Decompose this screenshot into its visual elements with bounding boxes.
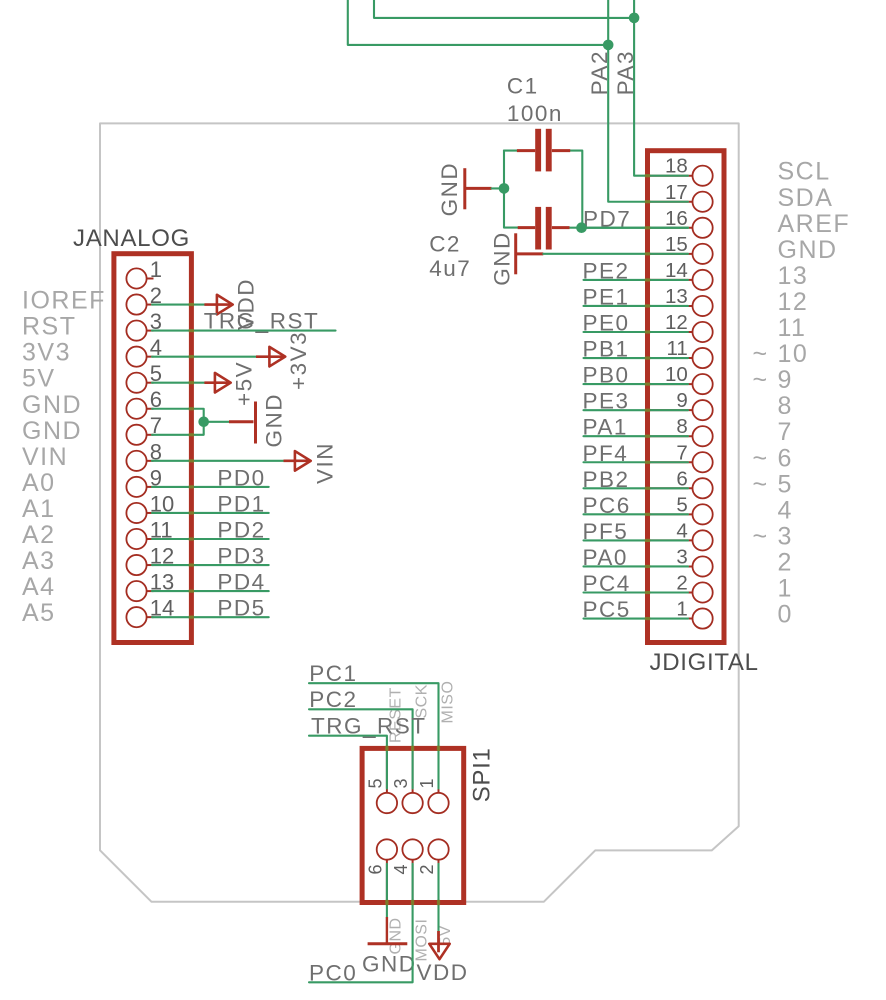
- JDIGITAL wire crossing tick pin 5: [645, 513, 650, 516]
- svg-text:6: 6: [676, 467, 687, 490]
- tick PD1 wire: [189, 511, 194, 514]
- wire GND to pin 15: [543, 253, 688, 255]
- tick PD5 wire: [189, 616, 194, 619]
- svg-text:A4: A4: [22, 573, 56, 601]
- svg-text:6: 6: [778, 444, 793, 472]
- svg-text:GND: GND: [778, 236, 838, 264]
- svg-text:SDA: SDA: [778, 184, 834, 212]
- wire GND stub to ground: [204, 421, 229, 423]
- tick PD2 wire: [189, 537, 194, 540]
- svg-text:PC2: PC2: [309, 687, 357, 712]
- wire net PE1: [584, 305, 689, 307]
- ground symbol GND (SPI1): [368, 917, 408, 944]
- tick +3V3 wire: [189, 355, 194, 358]
- JDIGITAL wire crossing tick pin 8: [645, 435, 650, 438]
- wire net PA2: [348, 0, 608, 45]
- JDIGITAL wire crossing tick pin 16: [645, 226, 650, 229]
- svg-text:17: 17: [665, 181, 688, 204]
- svg-text:2: 2: [417, 864, 437, 874]
- svg-text:JANALOG: JANALOG: [73, 225, 190, 252]
- SPI1 pin 5: [377, 751, 397, 813]
- junction GND at C1: [499, 183, 510, 194]
- SPI1 pin 6: [377, 839, 397, 900]
- wire net PB2: [584, 487, 689, 489]
- wire net PE3: [584, 409, 689, 411]
- JANALOG pin 9: [126, 477, 153, 497]
- svg-text:PA3: PA3: [613, 50, 638, 95]
- svg-text:5: 5: [778, 470, 793, 498]
- tick TRG_RST wire: [189, 329, 194, 332]
- svg-text:7: 7: [778, 418, 793, 446]
- svg-text:3: 3: [676, 545, 687, 568]
- svg-text:PD0: PD0: [217, 465, 265, 490]
- connector JDIGITAL box: [648, 151, 725, 643]
- JANALOG pin 1: [126, 268, 153, 288]
- board outline: [100, 123, 739, 901]
- svg-text:VDD: VDD: [417, 960, 469, 985]
- JDIGITAL pin 13: [650, 296, 713, 316]
- capacitor C1: [517, 129, 570, 172]
- wire GND tap to junction: [492, 187, 505, 189]
- wire net VDD (pin 2): [152, 303, 204, 305]
- tick GND wires: [189, 407, 194, 410]
- SPI1 pin 3: [402, 751, 422, 813]
- svg-text:1: 1: [676, 598, 687, 621]
- wire net +5V (pin 5): [152, 382, 204, 384]
- wire net PD5 (pin 14): [152, 616, 269, 618]
- svg-text:GND: GND: [22, 391, 82, 419]
- JANALOG pin 3: [126, 321, 153, 341]
- JDIGITAL wire crossing tick pin 2: [645, 591, 650, 594]
- svg-text:~: ~: [753, 340, 768, 368]
- svg-text:PA2: PA2: [587, 50, 612, 95]
- svg-text:PC0: PC0: [309, 960, 357, 985]
- JANALOG pin 6: [126, 399, 153, 419]
- JANALOG pin 12: [126, 555, 153, 575]
- wire net GND (left of capacitors): [504, 150, 517, 152]
- svg-text:13: 13: [778, 262, 809, 290]
- wire net PD2 (pin 11): [152, 538, 269, 540]
- JANALOG pin 5: [126, 373, 153, 393]
- svg-text:GND: GND: [262, 393, 287, 448]
- supply symbol +5V: [204, 373, 230, 393]
- wire net PD1 (pin 10): [152, 512, 269, 514]
- JDIGITAL wire crossing tick pin 17: [645, 200, 650, 203]
- JANALOG pin 2: [126, 294, 153, 314]
- svg-text:VIN: VIN: [22, 443, 68, 471]
- JDIGITAL wire crossing tick pin 6: [645, 487, 650, 490]
- svg-text:A0: A0: [22, 469, 56, 497]
- wire net PA0: [584, 565, 689, 567]
- svg-text:TRG_RST: TRG_RST: [311, 714, 427, 739]
- svg-text:SPI1: SPI1: [469, 747, 496, 802]
- svg-text:A1: A1: [22, 495, 56, 523]
- svg-text:6: 6: [366, 864, 386, 874]
- svg-text:TRG_RST: TRG_RST: [204, 309, 320, 334]
- svg-text:1: 1: [150, 257, 162, 282]
- svg-text:~: ~: [753, 444, 768, 472]
- junction net PA3: [629, 13, 640, 24]
- svg-text:15: 15: [665, 233, 688, 256]
- supply symbol VIN: [284, 451, 311, 471]
- svg-text:16: 16: [665, 207, 688, 230]
- capacitor C2: [518, 207, 570, 250]
- wire net PF4: [584, 461, 689, 463]
- SPI1 pin 2: [428, 839, 448, 900]
- svg-text:3: 3: [391, 778, 411, 788]
- wire net PF5: [584, 539, 689, 541]
- JDIGITAL pin 17: [650, 192, 713, 212]
- svg-text:5V: 5V: [22, 365, 56, 393]
- JANALOG pin 7: [126, 425, 153, 445]
- JDIGITAL wire crossing tick pin 14: [645, 278, 650, 281]
- JDIGITAL wire crossing tick pin 13: [645, 304, 650, 307]
- supply symbol +3V3: [256, 347, 285, 367]
- JDIGITAL pin 10: [650, 374, 713, 394]
- JDIGITAL pin 8: [650, 426, 713, 446]
- svg-text:VIN: VIN: [313, 442, 338, 484]
- tick +5V wire: [189, 381, 194, 384]
- svg-text:PD5: PD5: [217, 596, 265, 621]
- wire net VIN (pin 8): [152, 460, 284, 462]
- svg-text:12: 12: [665, 311, 688, 334]
- svg-text:PC1: PC1: [309, 661, 357, 686]
- svg-text:PD1: PD1: [217, 491, 265, 516]
- JDIGITAL pin 5: [650, 504, 713, 524]
- ground symbol GND (pins 6-7): [229, 402, 256, 444]
- ground symbol GND (at C1): [465, 168, 492, 209]
- wire net PC6: [584, 513, 689, 515]
- svg-text:4: 4: [391, 864, 411, 874]
- JDIGITAL wire crossing tick pin 9: [645, 409, 650, 412]
- svg-text:A3: A3: [22, 547, 56, 575]
- svg-text:~: ~: [753, 522, 768, 550]
- wire net PD7: [584, 227, 689, 229]
- JDIGITAL pin 4: [650, 530, 713, 550]
- svg-text:3V3: 3V3: [22, 339, 71, 367]
- svg-text:5: 5: [366, 778, 386, 788]
- JDIGITAL wire crossing tick pin 10: [645, 383, 650, 386]
- SPI1 pin 1: [428, 751, 448, 813]
- svg-text:100n: 100n: [507, 101, 563, 126]
- svg-text:SCL: SCL: [778, 158, 831, 186]
- wire net +3V3 (pin 4): [152, 356, 256, 358]
- svg-text:GND: GND: [437, 162, 462, 217]
- JDIGITAL wire crossing tick pin 11: [645, 356, 650, 359]
- JDIGITAL wire crossing tick pin 3: [645, 565, 650, 568]
- JDIGITAL pin 1: [650, 608, 713, 628]
- JANALOG pin 13: [126, 581, 153, 601]
- svg-text:11: 11: [667, 337, 688, 360]
- junction GND pins 6-7: [198, 417, 209, 428]
- svg-text:GND: GND: [388, 917, 405, 954]
- svg-text:JDIGITAL: JDIGITAL: [650, 649, 759, 676]
- svg-text:1: 1: [417, 778, 437, 788]
- svg-text:+5V: +5V: [232, 361, 257, 406]
- tick VDD wire: [189, 303, 194, 306]
- svg-text:8: 8: [778, 392, 793, 420]
- svg-text:5: 5: [676, 493, 687, 516]
- JDIGITAL pin 7: [650, 452, 713, 472]
- JDIGITAL wire crossing tick pin 18: [645, 174, 650, 177]
- wire net PB1: [584, 357, 689, 359]
- JDIGITAL wire crossing tick pin 1: [645, 617, 650, 620]
- svg-text:IOREF: IOREF: [22, 287, 106, 315]
- wire net PE0: [584, 331, 689, 333]
- svg-text:4: 4: [778, 496, 793, 524]
- svg-text:18: 18: [665, 155, 688, 178]
- JDIGITAL pin 3: [650, 556, 713, 576]
- svg-text:~: ~: [753, 366, 768, 394]
- SPI1 top edge ticks: [385, 746, 388, 751]
- tick PD4 wire: [189, 590, 194, 593]
- JDIGITAL pin 14: [650, 270, 713, 290]
- svg-text:PD3: PD3: [217, 544, 265, 569]
- svg-text:GND: GND: [490, 231, 515, 286]
- wire net PA3: [374, 0, 634, 18]
- svg-text:C2: C2: [429, 232, 461, 257]
- JDIGITAL wire crossing tick pin 12: [645, 330, 650, 333]
- SPI1 pin 4: [402, 839, 422, 900]
- wire net PD4 (pin 13): [152, 590, 269, 592]
- JDIGITAL pin 12: [650, 322, 713, 342]
- svg-text:13: 13: [665, 285, 688, 308]
- supply symbol VDD (SPI1): [437, 931, 440, 952]
- JDIGITAL pin 15: [650, 244, 713, 264]
- svg-text:11: 11: [778, 314, 807, 342]
- svg-text:PD4: PD4: [217, 570, 265, 595]
- svg-text:9: 9: [676, 389, 687, 412]
- JDIGITAL pin 2: [650, 582, 713, 602]
- wire net PC1: [309, 683, 439, 788]
- wire net PC4: [584, 591, 689, 593]
- tick VIN wire: [189, 459, 194, 462]
- wire SPI pin 6 to ground: [386, 864, 388, 917]
- supply symbol VDD: [204, 295, 232, 315]
- svg-text:10: 10: [778, 340, 809, 368]
- svg-text:RST: RST: [22, 313, 77, 341]
- svg-text:12: 12: [778, 288, 809, 316]
- svg-text:8: 8: [676, 415, 687, 438]
- svg-text:4: 4: [676, 519, 687, 542]
- svg-text:A2: A2: [22, 521, 56, 549]
- JANALOG pin 10: [126, 503, 153, 523]
- svg-text:GND: GND: [22, 417, 82, 445]
- wire net PE2: [584, 279, 689, 281]
- JDIGITAL wire crossing tick pin 7: [645, 461, 650, 464]
- JDIGITAL pin 16: [650, 218, 713, 238]
- svg-text:2: 2: [778, 548, 793, 576]
- junction net PD7: [576, 222, 587, 233]
- ground symbol GND (pin 15 net): [516, 233, 544, 274]
- svg-text:PD2: PD2: [217, 518, 265, 543]
- svg-text:7: 7: [676, 441, 687, 464]
- wire net PA1: [584, 435, 689, 437]
- JDIGITAL pin 18: [650, 166, 713, 186]
- tick PD0 wire: [189, 485, 194, 488]
- connector SPI1 box: [362, 748, 464, 902]
- JANALOG pin 4: [126, 347, 153, 367]
- svg-text:C1: C1: [507, 74, 539, 99]
- JANALOG pin 11: [126, 529, 153, 549]
- wire net TRG_RST (pin 3): [152, 330, 336, 332]
- svg-text:AREF: AREF: [778, 210, 851, 238]
- JDIGITAL pin 6: [650, 478, 713, 498]
- svg-text:2: 2: [676, 572, 687, 595]
- JDIGITAL wire crossing tick pin 15: [645, 252, 650, 255]
- wire net PC2: [309, 709, 413, 788]
- wire SPI pin 4 to PC0: [309, 864, 413, 983]
- svg-text:GND: GND: [362, 952, 417, 977]
- wire net GND (pins 6-7): [152, 409, 204, 435]
- wire net PD7 (right of capacitors): [570, 151, 582, 228]
- JANALOG pin 8: [126, 451, 153, 471]
- SPI1 bottom edge ticks: [385, 900, 388, 905]
- svg-text:10: 10: [665, 363, 688, 386]
- wire net TRG_RST (SPI1): [309, 736, 387, 789]
- svg-text:14: 14: [665, 259, 688, 282]
- wire SPI pin 2 to VDD: [437, 864, 439, 931]
- svg-text:4u7: 4u7: [429, 256, 471, 281]
- JDIGITAL pin 9: [650, 400, 713, 420]
- svg-text:1: 1: [778, 575, 793, 603]
- wire net PD0 (pin 9): [152, 486, 269, 488]
- wire net PB0: [584, 383, 689, 385]
- JDIGITAL wire crossing tick pin 4: [645, 539, 650, 542]
- svg-text:~: ~: [753, 470, 768, 498]
- JANALOG pin 14: [126, 607, 153, 627]
- junction net PA2: [603, 40, 614, 51]
- svg-text:MISO: MISO: [440, 681, 457, 724]
- svg-text:3: 3: [778, 522, 793, 550]
- tick PD3 wire: [189, 563, 194, 566]
- svg-text:A5: A5: [22, 599, 56, 627]
- connector JANALOG box: [114, 254, 191, 643]
- svg-text:+3V3: +3V3: [286, 331, 311, 390]
- wire net PD3 (pin 12): [152, 564, 269, 566]
- JDIGITAL pin 11: [650, 348, 713, 368]
- wire net PC5: [584, 617, 689, 619]
- svg-text:9: 9: [778, 366, 793, 394]
- svg-text:0: 0: [778, 601, 793, 629]
